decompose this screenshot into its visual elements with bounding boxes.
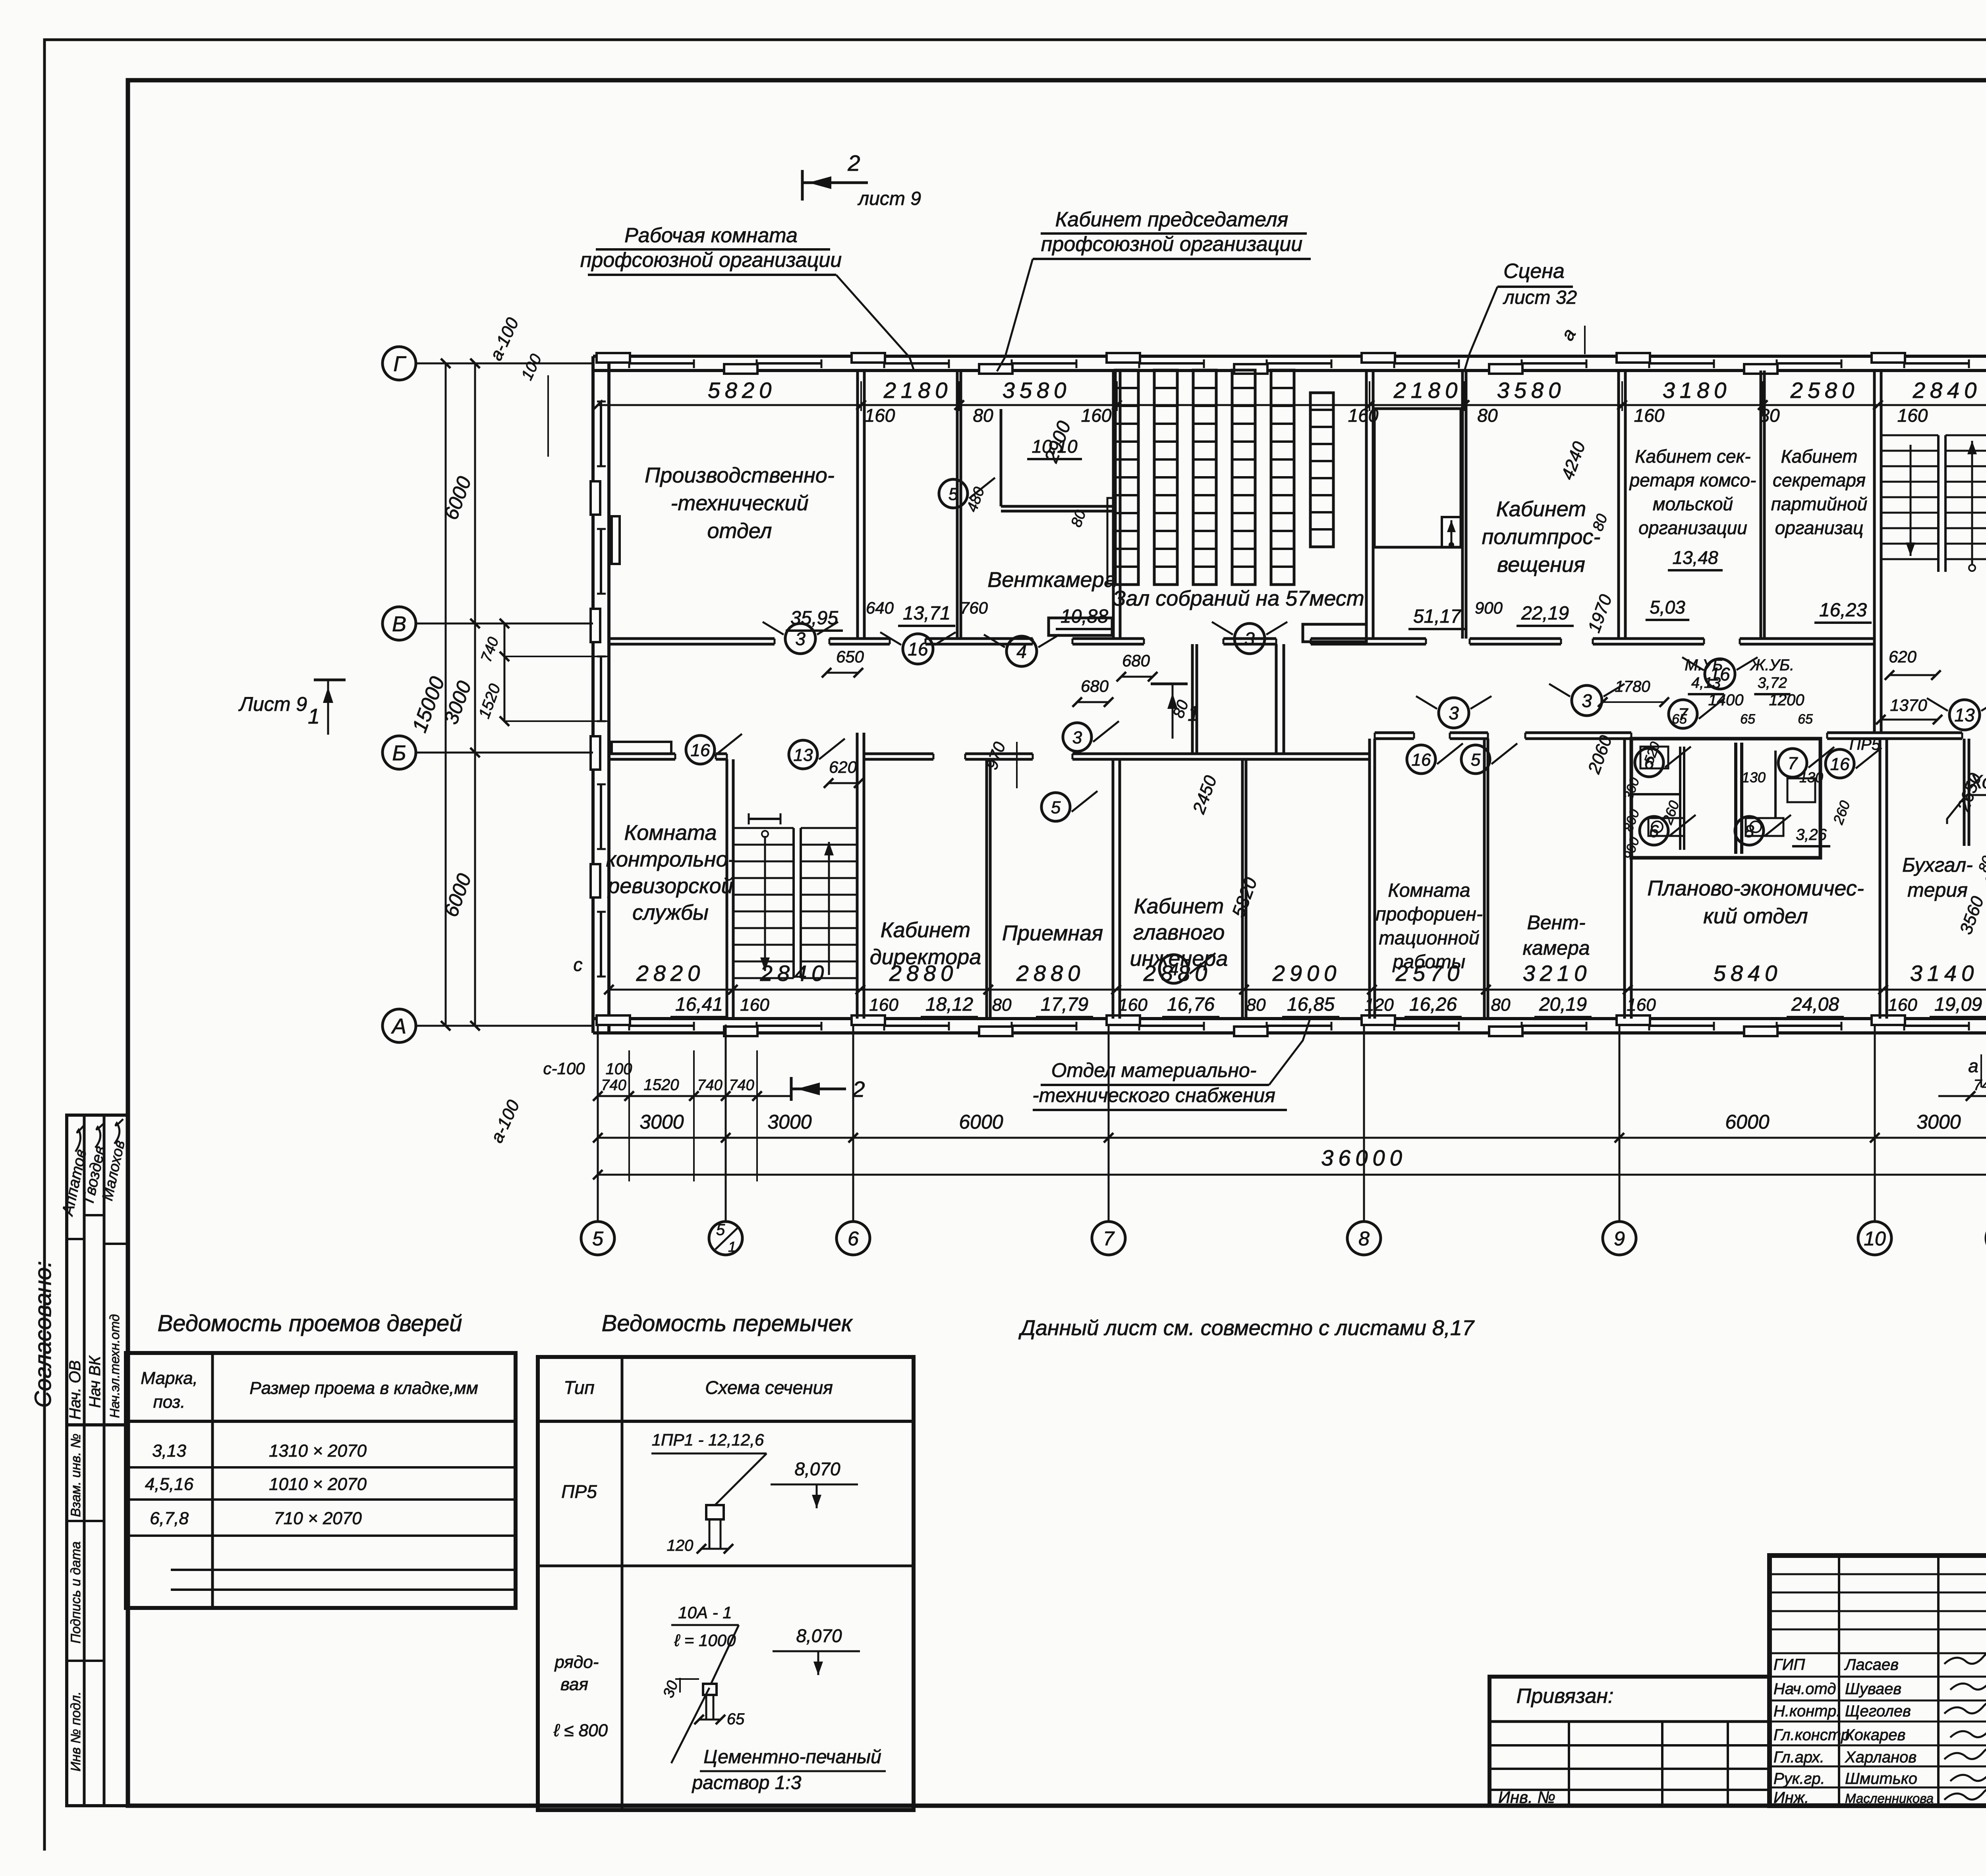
svg-text:6000: 6000 <box>1725 1111 1769 1133</box>
svg-text:9: 9 <box>1614 1228 1625 1250</box>
svg-text:3,26: 3,26 <box>1796 826 1827 843</box>
svg-text:Рабочая комната: Рабочая комната <box>624 224 798 247</box>
svg-text:а: а <box>1968 1056 1978 1076</box>
svg-text:16: 16 <box>908 639 928 660</box>
partition walls lower band <box>726 759 728 1019</box>
venting room internal partition <box>1001 505 1113 508</box>
svg-text:ℓ ≤ 800: ℓ ≤ 800 <box>553 1721 608 1740</box>
svg-text:А: А <box>391 1014 406 1038</box>
svg-text:120: 120 <box>1364 995 1394 1015</box>
svg-text:3000: 3000 <box>639 1111 684 1133</box>
svg-text:1520: 1520 <box>644 1076 679 1094</box>
axis circle А <box>383 1009 416 1042</box>
svg-text:Кабинет: Кабинет <box>1496 497 1586 521</box>
svg-text:6,7,8: 6,7,8 <box>150 1509 189 1528</box>
svg-text:650: 650 <box>836 647 864 666</box>
svg-text:службы: службы <box>632 901 709 924</box>
cabinet rect in room 10.88 <box>1049 618 1112 635</box>
svg-text:3000: 3000 <box>1916 1111 1961 1133</box>
svg-text:Зал собраний на 57мест: Зал собраний на 57мест <box>1113 587 1364 610</box>
svg-text:5: 5 <box>716 1221 725 1239</box>
svg-text:16: 16 <box>691 741 710 760</box>
svg-text:6000: 6000 <box>959 1111 1003 1133</box>
svg-text:3: 3 <box>795 629 806 649</box>
svg-text:терия: терия <box>1907 879 1968 901</box>
svg-text:65: 65 <box>727 1710 745 1728</box>
svg-text:Масленникова: Масленникова <box>1845 1791 1934 1806</box>
svg-text:поз.: поз. <box>153 1392 185 1412</box>
short seat row <box>1310 393 1333 547</box>
svg-text:5840: 5840 <box>1714 961 1782 986</box>
svg-text:710 × 2070: 710 × 2070 <box>274 1509 362 1528</box>
svg-text:раствор 1:3: раствор 1:3 <box>692 1772 802 1793</box>
bottom exterior wall <box>593 1017 1986 1020</box>
radiator under corridor window room1 <box>612 742 671 754</box>
svg-text:ℓ = 1000: ℓ = 1000 <box>674 1631 736 1650</box>
table lintels: frame <box>538 1357 914 1810</box>
svg-text:8,070: 8,070 <box>794 1459 840 1479</box>
svg-text:740: 740 <box>1973 1077 1986 1094</box>
svg-text:партийной: партийной <box>1771 494 1867 514</box>
svg-text:3: 3 <box>1244 629 1255 649</box>
axis number verticals <box>597 1025 599 1222</box>
panel joint blocks top wall <box>597 353 630 363</box>
svg-text:51,17: 51,17 <box>1413 606 1462 627</box>
svg-text:-технического снабжения: -технического снабжения <box>1032 1084 1275 1106</box>
svg-text:10: 10 <box>1864 1228 1886 1250</box>
svg-text:Цементно-печаный: Цементно-печаный <box>703 1747 881 1768</box>
svg-text:отдел: отдел <box>707 519 772 543</box>
svg-text:рядо-: рядо- <box>554 1652 599 1672</box>
svg-text:160: 160 <box>1888 995 1917 1015</box>
svg-text:2580: 2580 <box>1790 378 1859 403</box>
svg-text:620: 620 <box>1889 647 1917 666</box>
left margin inventory block <box>67 1425 128 1806</box>
svg-text:100: 100 <box>606 1060 632 1078</box>
svg-text:16,41: 16,41 <box>675 994 723 1015</box>
svg-text:Планово-экономичес-: Планово-экономичес- <box>1647 876 1864 900</box>
svg-text:3: 3 <box>1072 728 1082 747</box>
stairwell2 side walls <box>1873 371 1876 733</box>
svg-text:760: 760 <box>960 598 988 617</box>
740-1520 chain bottom left <box>598 1095 790 1097</box>
title block signature table lines <box>1770 1573 1986 1575</box>
svg-text:с-100: с-100 <box>543 1059 585 1078</box>
svg-text:Щеголев: Щеголев <box>1845 1702 1911 1720</box>
svg-text:Отдел материально-: Отдел материально- <box>1051 1059 1257 1081</box>
svg-text:4: 4 <box>1016 641 1027 662</box>
signature squiggles upper-left <box>75 1125 84 1152</box>
top exterior wall <box>593 355 1986 358</box>
svg-text:16,23: 16,23 <box>1819 600 1867 621</box>
svg-text:Марка,: Марка, <box>141 1368 198 1388</box>
svg-text:Инв № подл.: Инв № подл. <box>68 1691 83 1772</box>
left margin approval block <box>67 1115 128 1425</box>
svg-text:тационной: тационной <box>1379 928 1479 949</box>
svg-text:160: 160 <box>869 995 898 1015</box>
svg-text:Нач.эл.техн.отд: Нач.эл.техн.отд <box>107 1314 122 1418</box>
svg-text:Венткамера: Венткамера <box>987 568 1116 592</box>
door mark 5 at venting room <box>939 479 968 508</box>
svg-text:политпрос-: политпрос- <box>1482 525 1601 549</box>
svg-text:инженера: инженера <box>1130 947 1228 971</box>
svg-text:740: 740 <box>729 1077 754 1094</box>
svg-text:160: 160 <box>865 405 895 426</box>
axis letter lines <box>416 363 593 365</box>
svg-text:740: 740 <box>697 1077 722 1094</box>
36000 dimension line <box>598 1174 1986 1176</box>
svg-text:7: 7 <box>1788 754 1798 773</box>
svg-text:22,19: 22,19 <box>1521 603 1569 624</box>
svg-text:Н.контр.: Н.контр. <box>1773 1702 1841 1720</box>
svg-text:Нач. ОВ: Нач. ОВ <box>66 1360 84 1419</box>
section mark 1 in plan <box>1151 683 1188 685</box>
axis circle Г <box>383 347 416 380</box>
svg-text:3: 3 <box>1582 691 1592 711</box>
svg-text:Бухгал-: Бухгал- <box>1902 854 1973 876</box>
svg-text:ПР5: ПР5 <box>1849 736 1881 753</box>
svg-text:1370: 1370 <box>1890 696 1927 714</box>
svg-text:160: 160 <box>740 995 769 1015</box>
svg-text:1: 1 <box>1188 702 1200 726</box>
svg-text:16: 16 <box>1412 750 1431 770</box>
svg-text:3,72: 3,72 <box>1758 675 1787 691</box>
top dimension extension lines <box>860 381 862 411</box>
bench at hall bottom wall <box>1303 624 1366 642</box>
svg-text:3210: 3210 <box>1523 961 1592 986</box>
svg-text:Инж.: Инж. <box>1773 1789 1809 1807</box>
svg-text:профсоюзной организации: профсоюзной организации <box>1041 233 1302 256</box>
svg-text:2880: 2880 <box>1016 961 1085 986</box>
svg-text:80: 80 <box>1477 405 1498 426</box>
svg-text:6: 6 <box>848 1228 859 1250</box>
signature squiggles <box>1944 1652 1986 1664</box>
hall vestibule partition <box>1275 644 1278 754</box>
svg-text:организац: организац <box>1775 517 1864 538</box>
svg-text:1310 × 2070: 1310 × 2070 <box>269 1441 367 1461</box>
door marks lower corridor <box>686 735 715 764</box>
left 15000 dimension line <box>445 363 447 1026</box>
svg-text:1200: 1200 <box>1769 691 1804 709</box>
left 6000-3000 dimension line <box>474 363 476 1026</box>
svg-text:680: 680 <box>1081 677 1109 695</box>
svg-text:65: 65 <box>1740 712 1755 727</box>
svg-text:5: 5 <box>1051 798 1061 817</box>
svg-text:Кокарев: Кокарев <box>1845 1726 1905 1744</box>
svg-text:Взам. инв. №: Взам. инв. № <box>68 1434 83 1517</box>
svg-text:10А - 1: 10А - 1 <box>678 1603 732 1622</box>
storeroom partition <box>1963 739 1966 846</box>
svg-text:главного: главного <box>1133 921 1225 944</box>
stage steps <box>1442 517 1461 547</box>
svg-text:80: 80 <box>1491 995 1511 1015</box>
partition walls upper band <box>856 371 859 639</box>
svg-text:3,13: 3,13 <box>152 1441 186 1461</box>
svg-text:2180: 2180 <box>1393 378 1462 403</box>
svg-text:80: 80 <box>1759 405 1780 426</box>
vestibule left partition <box>1191 644 1194 754</box>
svg-text:3580: 3580 <box>1497 378 1566 403</box>
svg-text:Нач.отд: Нач.отд <box>1773 1680 1836 1698</box>
svg-text:вещения: вещения <box>1497 553 1585 577</box>
svg-text:4,5,16: 4,5,16 <box>145 1475 194 1494</box>
svg-text:2180: 2180 <box>883 378 952 403</box>
svg-text:80: 80 <box>992 995 1012 1015</box>
hall radiator at left wall <box>1107 498 1113 584</box>
svg-text:18,12: 18,12 <box>925 994 973 1015</box>
svg-text:160: 160 <box>1348 405 1379 426</box>
svg-text:16: 16 <box>1830 755 1850 774</box>
left exterior wall <box>591 356 595 1033</box>
axis circle В <box>383 607 416 640</box>
staircase 2 (upper band) <box>1881 435 1986 572</box>
svg-text:65: 65 <box>1798 712 1813 727</box>
svg-text:13: 13 <box>794 745 813 765</box>
svg-text:Инв. №: Инв. № <box>1498 1788 1555 1807</box>
svg-text:640: 640 <box>866 598 894 617</box>
svg-text:80: 80 <box>1246 995 1266 1015</box>
axis circles 5..11 <box>581 1222 614 1255</box>
svg-text:Привязан:: Привязан: <box>1517 1685 1614 1708</box>
section mark 2 bottom <box>791 1088 846 1090</box>
staircase 1 (lower band) <box>733 813 857 978</box>
svg-text:Лист 9: Лист 9 <box>238 693 307 715</box>
windows in left exterior wall <box>600 401 602 466</box>
svg-text:120: 120 <box>667 1537 694 1554</box>
svg-text:Комната: Комната <box>1388 880 1470 901</box>
corridor top wall segments <box>609 637 775 640</box>
svg-text:3180: 3180 <box>1663 378 1731 403</box>
svg-text:6: 6 <box>1649 822 1659 841</box>
svg-text:1ПР1 - 12,12,6: 1ПР1 - 12,12,6 <box>652 1430 764 1449</box>
svg-text:мольской: мольской <box>1653 494 1733 514</box>
svg-text:36000: 36000 <box>1321 1145 1407 1170</box>
svg-text:16,76: 16,76 <box>1167 994 1215 1015</box>
windows in bottom exterior wall <box>629 1025 694 1027</box>
svg-text:680: 680 <box>1122 651 1150 670</box>
svg-text:13,71: 13,71 <box>903 603 950 624</box>
svg-text:5,03: 5,03 <box>1650 597 1685 618</box>
corridor bottom wall right segments <box>1375 731 1414 734</box>
svg-text:4: 4 <box>1169 960 1178 979</box>
svg-text:10,10: 10,10 <box>1032 436 1078 457</box>
svg-text:Шуваев: Шуваев <box>1845 1680 1901 1698</box>
svg-text:с: с <box>574 954 583 975</box>
svg-text:Тип: Тип <box>564 1377 594 1398</box>
svg-text:13: 13 <box>1954 705 1975 726</box>
svg-text:лист 32: лист 32 <box>1503 287 1577 308</box>
windows in top exterior wall <box>629 362 694 365</box>
svg-text:130: 130 <box>1742 769 1766 786</box>
svg-text:1: 1 <box>728 1239 736 1255</box>
svg-text:160: 160 <box>1627 995 1656 1015</box>
svg-text:2: 2 <box>852 1077 865 1102</box>
svg-text:Схема сечения: Схема сечения <box>705 1377 833 1398</box>
assembly hall seat rows <box>1115 370 1138 585</box>
svg-text:ретаря комсо-: ретаря комсо- <box>1629 470 1756 490</box>
svg-text:5: 5 <box>1471 750 1481 770</box>
svg-text:Согласовано:: Согласовано: <box>30 1261 56 1408</box>
svg-text:лист 9: лист 9 <box>857 188 921 209</box>
svg-text:620: 620 <box>829 758 857 776</box>
svg-text:Данный лист см. совместно с ли: Данный лист см. совместно с листами 8,17 <box>1018 1316 1475 1340</box>
svg-text:контрольно-: контрольно- <box>606 847 735 871</box>
svg-text:19,09: 19,09 <box>1934 994 1982 1015</box>
svg-text:1: 1 <box>308 704 320 728</box>
title block outer frame <box>1770 1556 1986 1806</box>
svg-text:директора: директора <box>870 945 981 969</box>
svg-text:Г: Г <box>393 352 406 376</box>
WC fixtures <box>1640 747 1668 768</box>
svg-text:2820: 2820 <box>636 961 705 986</box>
svg-text:ПР5: ПР5 <box>561 1481 597 1502</box>
svg-text:900: 900 <box>1475 598 1503 617</box>
svg-text:8: 8 <box>1358 1228 1370 1250</box>
bottom dimension line inside building <box>609 989 1986 991</box>
svg-text:Нач ВК: Нач ВК <box>86 1355 104 1408</box>
svg-text:17,79: 17,79 <box>1041 994 1088 1015</box>
WC cluster walls <box>1631 739 1820 858</box>
svg-text:ГИП: ГИП <box>1773 1656 1805 1673</box>
left top 100 dim <box>547 375 549 457</box>
svg-text:Приемная: Приемная <box>1002 921 1103 945</box>
svg-text:Производственно-: Производственно- <box>645 463 835 487</box>
svg-text:2900: 2900 <box>1272 961 1341 986</box>
svg-text:3580: 3580 <box>1003 378 1071 403</box>
svg-text:профориен-: профориен- <box>1376 904 1483 925</box>
svg-text:Харланов: Харланов <box>1845 1749 1916 1766</box>
svg-text:80: 80 <box>973 405 993 426</box>
svg-text:5: 5 <box>949 484 958 504</box>
svg-text:16,26: 16,26 <box>1409 994 1457 1015</box>
svg-text:Гл.арх.: Гл.арх. <box>1773 1749 1824 1766</box>
svg-text:Подпись и дата: Подпись и дата <box>68 1541 83 1643</box>
svg-text:7: 7 <box>1678 705 1688 724</box>
svg-text:Размер проема в кладке,мм: Размер проема в кладке,мм <box>249 1378 478 1398</box>
svg-text:Сцена: Сцена <box>1503 260 1565 283</box>
svg-text:160: 160 <box>1118 995 1148 1015</box>
svg-text:Комната: Комната <box>624 821 717 845</box>
svg-text:160: 160 <box>1081 405 1112 426</box>
svg-text:160: 160 <box>1634 405 1665 426</box>
svg-text:Кабинет председателя: Кабинет председателя <box>1055 208 1289 231</box>
svg-text:2: 2 <box>847 151 860 176</box>
door slash marks and circled numbers upper corridor <box>785 623 815 654</box>
svg-text:16: 16 <box>1710 664 1730 685</box>
svg-text:организации: организации <box>1638 517 1747 538</box>
svg-text:Хоз. кладовая: Хоз. кладовая <box>1969 772 1986 793</box>
svg-text:Шмитько: Шмитько <box>1845 1770 1917 1787</box>
svg-text:секретаря: секретаря <box>1773 470 1866 490</box>
svg-text:Ласаев: Ласаев <box>1844 1656 1899 1673</box>
svg-text:Гл.констр: Гл.констр <box>1773 1726 1850 1744</box>
svg-text:16,85: 16,85 <box>1287 994 1335 1015</box>
svg-text:камера: камера <box>1522 937 1590 959</box>
svg-text:В: В <box>392 612 406 636</box>
svg-text:20,19: 20,19 <box>1539 994 1587 1015</box>
svg-text:Вент-: Вент- <box>1527 911 1586 934</box>
svg-text:Рук.гр.: Рук.гр. <box>1773 1770 1825 1787</box>
svg-text:10,88: 10,88 <box>1061 606 1108 627</box>
extension verticals lower dims <box>597 1050 599 1181</box>
3000-6000 dimension line <box>598 1137 1986 1139</box>
svg-text:вая: вая <box>560 1675 588 1694</box>
svg-text:профсоюзной организации: профсоюзной организации <box>580 249 842 272</box>
svg-text:2840: 2840 <box>1913 378 1982 403</box>
svg-text:740: 740 <box>601 1077 626 1094</box>
svg-text:7: 7 <box>1103 1228 1115 1250</box>
axis circle Б <box>383 736 416 769</box>
top dimension line <box>598 404 1986 406</box>
pривязан annex frame <box>1489 1677 1770 1806</box>
svg-text:2840: 2840 <box>760 961 829 986</box>
svg-text:работы: работы <box>1392 952 1465 973</box>
svg-text:-технический: -технический <box>670 491 808 515</box>
svg-text:3: 3 <box>1449 703 1459 724</box>
svg-text:6: 6 <box>1644 753 1654 773</box>
svg-text:1010 × 2070: 1010 × 2070 <box>269 1475 367 1494</box>
section mark 2 top <box>802 181 868 184</box>
left 1520-740 chain <box>504 623 506 721</box>
svg-text:5: 5 <box>592 1228 603 1250</box>
svg-text:3000: 3000 <box>767 1111 811 1133</box>
svg-text:8,070: 8,070 <box>796 1625 842 1646</box>
svg-text:160: 160 <box>1897 405 1928 426</box>
svg-text:24,08: 24,08 <box>1791 994 1839 1015</box>
svg-text:Кабинет: Кабинет <box>1134 894 1224 918</box>
svg-text:Б: Б <box>392 741 406 765</box>
svg-text:5820: 5820 <box>708 378 777 403</box>
svg-text:3140: 3140 <box>1910 961 1979 986</box>
svg-text:кий отдел: кий отдел <box>1703 904 1808 928</box>
panel joint blocks bottom wall <box>597 1015 630 1025</box>
svg-text:ревизорской: ревизорской <box>607 874 733 898</box>
740-1520 chain bottom right <box>1938 1095 1986 1097</box>
svg-text:13,48: 13,48 <box>1672 547 1718 568</box>
svg-text:8: 8 <box>1745 822 1754 841</box>
svg-text:Кабинет: Кабинет <box>1781 446 1858 467</box>
svg-text:Кабинет: Кабинет <box>881 918 970 942</box>
corridor bottom wall left segments <box>609 753 675 755</box>
svg-text:Ведомость перемычек: Ведомость перемычек <box>602 1310 853 1336</box>
svg-text:Кабинет сек-: Кабинет сек- <box>1635 446 1750 467</box>
panel joint blocks left wall <box>591 481 600 515</box>
table door openings: frame <box>126 1353 516 1608</box>
svg-text:Ведомость проемов дверей: Ведомость проемов дверей <box>157 1310 462 1336</box>
stage platform in scene room <box>1374 409 1461 547</box>
